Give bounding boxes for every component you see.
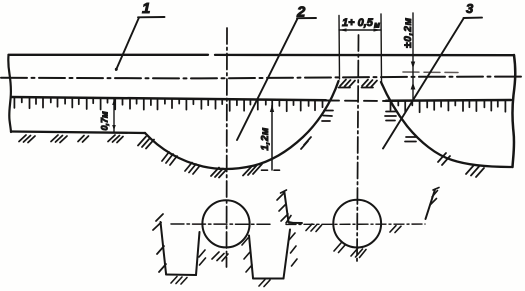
- detail A: inner right wall hatches: [242, 238, 252, 272]
- detail A: left wall hatches: [153, 214, 166, 272]
- ground line left section: [11, 97, 326, 100]
- detail B: surface hatches left: [306, 224, 322, 232]
- svg-text:1+ 0,5: 1+ 0,5: [342, 17, 374, 29]
- detail B: surface hatches right: [390, 226, 401, 233]
- dimension 1.2m: [271, 106, 273, 171]
- ground line right section: [386, 99, 511, 102]
- detail B: pipe circle: [333, 200, 381, 248]
- dimension 0.7m: [113, 99, 115, 132]
- svg-text:1,2м: 1,2м: [260, 127, 271, 150]
- detail A: inner left wall: [196, 232, 200, 275]
- svg-text:±0,2м: ±0,2м: [403, 17, 414, 48]
- right pit arc hatches: [385, 112, 484, 178]
- detail A: left floor hatches: [171, 277, 187, 285]
- ground ruler ticks right: [391, 101, 506, 113]
- ground line hidden dashes across pit: [326, 100, 386, 103]
- slot floor hatches: [339, 80, 378, 88]
- left pit arc: [145, 81, 339, 169]
- detail A: right floor: [253, 278, 284, 280]
- detail A: right outer wall hatches: [286, 216, 297, 267]
- shelf hatch groups: [19, 135, 123, 143]
- left pit arc hatches: [138, 111, 333, 178]
- detail A: right floor hatches: [259, 280, 270, 287]
- detail B: horizontal centerline: [286, 223, 425, 225]
- shelf step line: [11, 132, 145, 134]
- svg-text:м: м: [374, 21, 380, 30]
- detail A: left floor: [166, 274, 196, 277]
- detail B: left bank hatches: [277, 190, 288, 221]
- right pit arc: [381, 82, 512, 167]
- detail A: left outer wall: [161, 222, 167, 274]
- dimension line 1+0.5m: [339, 29, 381, 31]
- road top line: [9, 54, 515, 57]
- axis retrace stroke: [403, 71, 458, 74]
- ground ruler ticks left: [14, 97, 322, 111]
- pit slot right extension line: [380, 14, 383, 82]
- right torn edge: [512, 55, 515, 167]
- svg-text:0,7м: 0,7м: [100, 111, 110, 131]
- pipeline axis dash-dot: [1, 77, 521, 79]
- vertical centerline left pit: [226, 28, 229, 267]
- detail B: left bank: [284, 192, 293, 224]
- detail A: horizontal centerline: [171, 223, 270, 225]
- vertical centerline right pit: [357, 35, 359, 261]
- dimension +-0.2m vertical line: [412, 13, 414, 99]
- svg-text:3: 3: [466, 1, 474, 16]
- detail B: under pipe hatches: [334, 243, 366, 258]
- left torn edge: [8, 55, 11, 132]
- detail A: inner left wall hatches: [199, 250, 206, 265]
- detail A: pedestal hatches under pipe: [212, 252, 228, 261]
- detail B: right bank hatches: [430, 188, 439, 206]
- detail A: pipe circle: [202, 200, 249, 247]
- detail B: surface line left: [289, 222, 302, 224]
- svg-text:1: 1: [142, 0, 150, 17]
- detail A: right outer wall: [284, 230, 291, 279]
- pit slot left extension line: [338, 16, 341, 80]
- detail B: right bank: [426, 190, 436, 220]
- detail A: inner right wall: [249, 236, 253, 279]
